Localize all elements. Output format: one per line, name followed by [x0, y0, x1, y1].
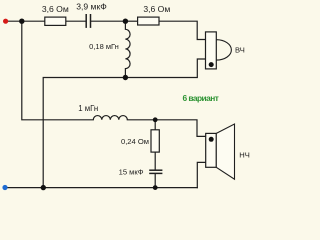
wire tweeter bottom terminal to lower-left return rail: [43, 59, 205, 188]
svg-text:1 мГн: 1 мГн: [78, 104, 98, 113]
capacitor C2 15 мкФ (horizontal plates): [149, 170, 162, 173]
wire node B down and woofer branch with inductor L2 1 мГн (4 top bumps): [22, 21, 206, 136]
resistor R2 3,6 Ом: [138, 17, 159, 25]
input terminal + (red): [3, 19, 8, 24]
node A junction dot: [123, 19, 128, 24]
svg-text:0,18 мГн: 0,18 мГн: [89, 42, 119, 51]
input terminal - (blue): [2, 185, 7, 190]
wire R3 to C2: [154, 152, 156, 170]
node C junction dot: [153, 117, 158, 122]
wire node A to R2: [125, 20, 137, 22]
inductor L1 0,18 мГн (vertical, 4 right bumps): [125, 21, 130, 77]
junction dot return rail joins bottom rail: [41, 185, 46, 190]
svg-text:3,9 мкФ: 3,9 мкФ: [76, 2, 107, 12]
junction dot C2 on bottom rail: [153, 185, 158, 190]
svg-text:0,24 Ом: 0,24 Ом: [121, 137, 149, 146]
wire woofer bottom terminal down: [197, 162, 205, 187]
svg-text:3,6 Ом: 3,6 Ом: [42, 4, 69, 14]
capacitor C1 3,9 мкФ: [86, 14, 90, 28]
resistor R1 3,6 Ом: [45, 17, 66, 25]
wire bottom rail from - input: [5, 187, 197, 189]
junction dot L1 bottom on return rail: [123, 75, 128, 80]
tweeter polarity dot: [209, 62, 214, 67]
wire C1 to node A: [91, 20, 125, 22]
wire top rail from + input to R1: [6, 20, 45, 22]
wire R2 to tweeter top terminal: [159, 21, 206, 39]
wire node C down to R3: [154, 120, 156, 130]
svg-text:6 вариант: 6 вариант: [183, 93, 219, 103]
woofer polarity dot: [209, 137, 214, 142]
svg-text:15 мкФ: 15 мкФ: [119, 168, 144, 177]
wire C2 to bottom rail: [154, 174, 156, 188]
resistor R3 0,24 Ом (vertical): [151, 130, 159, 152]
svg-text:ВЧ: ВЧ: [235, 46, 245, 55]
tweeter U1 ВЧ (rect + dome): [206, 32, 217, 69]
wire R1 to C1: [66, 20, 86, 22]
svg-text:НЧ: НЧ: [239, 151, 250, 160]
node B junction dot: [19, 19, 24, 24]
woofer U2 НЧ (rect + cone): [206, 133, 217, 167]
svg-text:3,6 Ом: 3,6 Ом: [143, 4, 170, 14]
